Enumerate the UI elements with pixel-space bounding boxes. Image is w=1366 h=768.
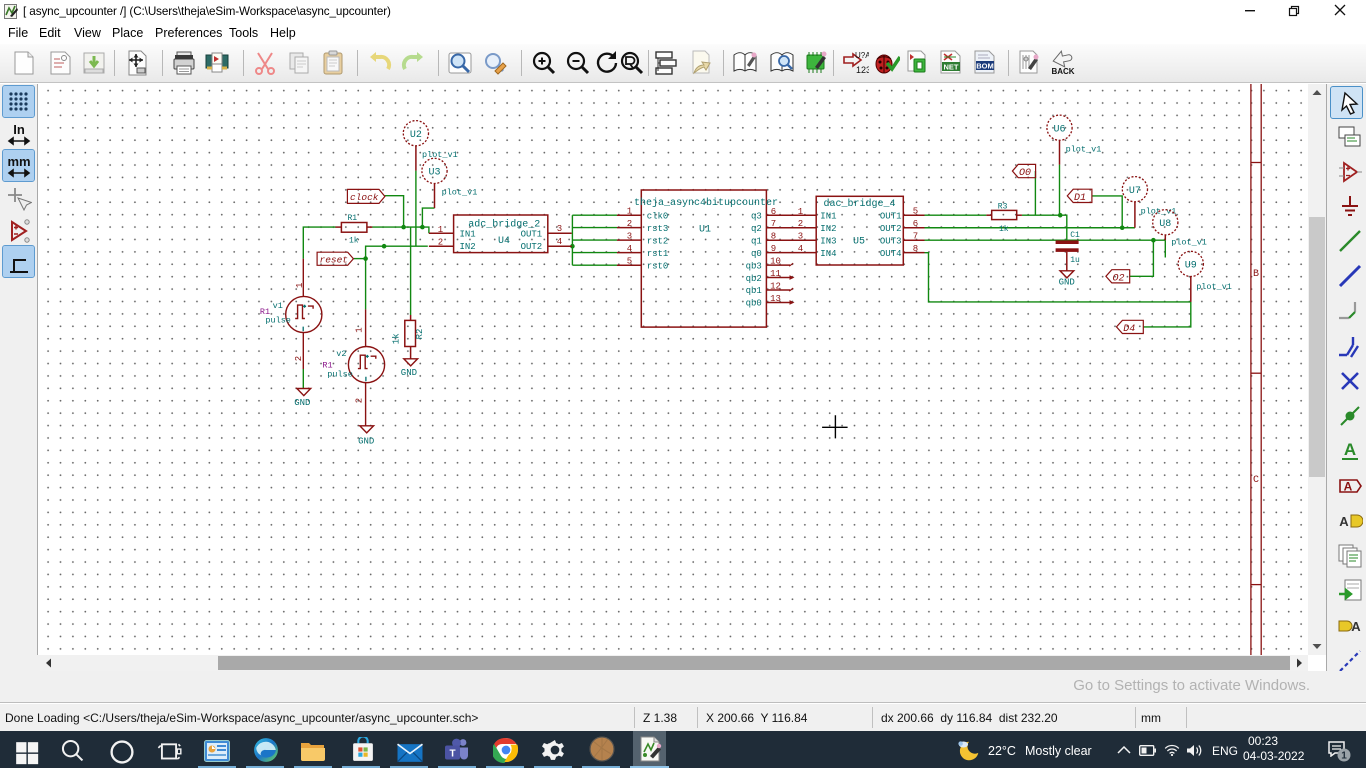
plot flag U3 (422, 158, 447, 183)
ground under R2 (404, 359, 418, 366)
svg-text:3: 3 (627, 232, 632, 242)
svg-text:5: 5 (913, 207, 918, 217)
svg-text:IN1: IN1 (460, 229, 476, 239)
svg-text:plot_v1: plot_v1 (422, 150, 458, 160)
svg-text:pulse: pulse (327, 369, 353, 379)
svg-text:NET: NET (944, 63, 959, 72)
IC U5 dac_bridge_4 box (816, 196, 903, 265)
svg-text:OUT3: OUT3 (880, 236, 902, 246)
svg-text:7: 7 (771, 219, 776, 229)
svg-text:A: A (1344, 440, 1356, 459)
svg-text:B: B (1253, 269, 1259, 280)
svg-text:IN2: IN2 (460, 242, 476, 252)
svg-text:1k: 1k (999, 225, 1009, 234)
plot flag U7 (1122, 177, 1147, 202)
junction J5 R3 node (1058, 213, 1063, 218)
svg-text:U5: U5 (853, 236, 865, 247)
junction J6 pin6 node (1120, 225, 1125, 230)
wire C1 to GND (1066, 252, 1068, 271)
svg-text:A: A (1339, 514, 1349, 529)
wire dac pin7 row (925, 239, 1166, 241)
svg-text:q3: q3 (751, 212, 762, 222)
svg-text:OUT1: OUT1 (880, 211, 902, 221)
global label O0 (1012, 164, 1035, 177)
wire dac pin6 row (925, 227, 1135, 229)
wire ladder row 5 (572, 264, 617, 266)
resistor R3 (986, 210, 1022, 219)
svg-text:1k: 1k (392, 333, 402, 344)
wire ladder vertical (571, 215, 573, 265)
svg-text:GND: GND (401, 368, 417, 378)
svg-text:6: 6 (771, 207, 776, 217)
svg-text:6: 6 (913, 219, 918, 229)
capacitor C1 (1056, 240, 1079, 252)
wire ladder row 1 (572, 214, 617, 216)
U1 qb3 pin 10 (766, 264, 790, 266)
svg-text:8: 8 (771, 232, 776, 242)
svg-text:OUT4: OUT4 (880, 249, 902, 259)
ground under v1 (297, 389, 311, 396)
voltage source v2 (348, 309, 384, 425)
svg-text:4: 4 (627, 244, 632, 254)
wire main row left segment (303, 227, 335, 259)
svg-text:7: 7 (913, 232, 918, 242)
junction J7 pin7 node (1151, 238, 1156, 243)
svg-text:1: 1 (798, 207, 803, 217)
svg-text:2: 2 (627, 219, 632, 229)
U1 qb0 pin 13 (766, 301, 790, 303)
svg-text:11: 11 (770, 269, 781, 279)
svg-text:U2: U2 (410, 130, 422, 141)
junction J1 (401, 225, 406, 230)
global label clock (347, 189, 385, 203)
svg-text:U3: U3 (428, 168, 440, 179)
svg-text:clk0: clk0 (647, 211, 669, 221)
svg-text:U4: U4 (498, 236, 510, 247)
svg-text:4: 4 (557, 237, 562, 247)
wire reset to v2 (365, 259, 367, 310)
wire R3 to C1 node (1022, 215, 1067, 240)
U5 right pins 5-8 (903, 215, 924, 252)
wire U2 plot drop (415, 171, 417, 247)
background window edge strips at very top (563, 0, 611, 2)
U1 qb2 pin 11 (766, 277, 790, 279)
svg-text:2: 2 (354, 398, 364, 403)
pin 2 U4 (429, 245, 454, 247)
ground under v2 (360, 426, 374, 433)
plot flag U2 (403, 121, 428, 146)
svg-text:1: 1 (295, 283, 305, 288)
svg-text:plot_v1: plot_v1 (1066, 145, 1102, 155)
svg-text:OUT1: OUT1 (521, 229, 543, 239)
wire reset riser and IN2 row (366, 246, 428, 258)
svg-text:R3: R3 (998, 202, 1008, 211)
junction J2 (420, 225, 425, 230)
plot flag U9 (1178, 251, 1203, 276)
svg-text:q2: q2 (751, 224, 762, 234)
svg-text:IN2: IN2 (820, 224, 836, 234)
svg-text:5: 5 (627, 257, 632, 267)
svg-text:3: 3 (557, 224, 562, 234)
svg-text:GND: GND (358, 437, 374, 447)
wire ladder row 4 (572, 252, 617, 254)
svg-text:BOM: BOM (976, 62, 994, 71)
svg-text:U?A: U?A (855, 51, 869, 60)
svg-text:plot_v1: plot_v1 (442, 188, 478, 198)
svg-text:1: 1 (438, 225, 443, 235)
svg-text:theja_async4bitupcounter: theja_async4bitupcounter (634, 197, 778, 209)
svg-text:rst0: rst0 (647, 261, 669, 271)
wire v1 gnd segment (302, 369, 304, 388)
svg-text:2: 2 (798, 219, 803, 229)
svg-text:plot_v1: plot_v1 (1171, 238, 1207, 248)
wire U6 plot drop (1059, 165, 1061, 216)
pin 4 U4 (548, 245, 572, 247)
svg-text:C: C (1253, 475, 1259, 486)
svg-text:U6: U6 (1053, 124, 1065, 135)
sheet border right edge (1251, 84, 1261, 655)
wire O2 label route (1130, 240, 1154, 276)
junction J4 on IN2 row (382, 244, 387, 249)
svg-text:12: 12 (770, 282, 781, 292)
svg-text:qb2: qb2 (746, 274, 762, 284)
wire O0 drop (1034, 171, 1036, 215)
wire U8 lower stub (1164, 240, 1166, 257)
wire U3 plot route (422, 208, 434, 227)
svg-text:v1: v1 (273, 301, 283, 311)
plot flag U6 (1047, 115, 1072, 140)
svg-text:U1: U1 (699, 224, 711, 235)
svg-text:In: In (13, 122, 25, 137)
svg-text:IN4: IN4 (820, 249, 836, 259)
svg-text:IN3: IN3 (820, 236, 836, 246)
svg-text:D1: D1 (1074, 193, 1086, 204)
svg-text:q1: q1 (751, 236, 762, 246)
wire D4 label route (1143, 302, 1191, 327)
wire clock-to-junction (385, 196, 404, 227)
svg-text:3: 3 (798, 232, 803, 242)
svg-text:123: 123 (856, 65, 869, 75)
wire dac pin5 to R3 (925, 214, 987, 216)
svg-text:pulse: pulse (265, 316, 291, 326)
svg-text:1u: 1u (1070, 256, 1080, 265)
svg-text:rst1: rst1 (647, 249, 669, 259)
voltage source v1 (286, 259, 322, 369)
svg-text:2: 2 (438, 238, 443, 248)
svg-text:mm: mm (7, 154, 30, 169)
svg-text:O0: O0 (1019, 168, 1031, 179)
ground under C1 (1060, 271, 1074, 278)
U1 left pins 1-5 (617, 215, 641, 265)
svg-text:clock: clock (350, 192, 379, 203)
global label D4 (1117, 320, 1144, 333)
svg-text:O2: O2 (1113, 273, 1125, 284)
resistor R1 (335, 223, 372, 233)
svg-text:C1: C1 (1070, 231, 1080, 240)
pin 3 U4 (548, 232, 572, 234)
svg-text:q0: q0 (751, 249, 762, 259)
junction J3 reset (363, 256, 368, 261)
wire D1 label route (1092, 196, 1122, 228)
svg-text:BACK: BACK (1051, 67, 1074, 76)
svg-text:R2: R2 (415, 329, 425, 340)
svg-text:GND: GND (294, 398, 310, 408)
svg-text:13: 13 (770, 294, 781, 304)
svg-text:D4: D4 (1123, 324, 1135, 335)
global label O2 (1106, 270, 1130, 283)
IC U1 theja_async4bitupcounter box (641, 190, 766, 327)
svg-text:reset: reset (320, 254, 349, 265)
svg-text:v2: v2 (336, 349, 346, 359)
svg-text:4: 4 (798, 244, 803, 254)
wire reset stub (354, 258, 366, 260)
svg-text:IN1: IN1 (820, 211, 836, 221)
svg-text:plot_v1: plot_v1 (1196, 282, 1232, 292)
wire main row right of R1 (372, 227, 429, 233)
svg-text:A: A (1344, 480, 1353, 494)
svg-text:OUT2: OUT2 (521, 242, 543, 252)
svg-text:T: T (449, 749, 455, 760)
svg-text:rst2: rst2 (647, 236, 669, 246)
svg-text:A: A (1351, 619, 1361, 634)
svg-text:U8: U8 (1159, 219, 1171, 230)
svg-text:10: 10 (770, 257, 781, 267)
mouse crosshair (822, 415, 848, 438)
svg-text:1: 1 (354, 327, 364, 332)
svg-text:1: 1 (627, 207, 632, 217)
svg-text:2: 2 (294, 356, 304, 361)
U1 right pins 6-9 joined to U5 pins 1-4 (766, 215, 816, 252)
svg-text:1: 1 (1341, 751, 1347, 762)
svg-text:GND: GND (1059, 278, 1075, 288)
wire ladder row 2 (572, 227, 617, 229)
junction ladder pin4 (570, 244, 575, 249)
svg-text:OUT2: OUT2 (880, 224, 902, 234)
global label reset (317, 252, 353, 265)
svg-text:R1: R1 (348, 214, 358, 223)
svg-text:qb1: qb1 (746, 286, 762, 296)
svg-text:U9: U9 (1185, 261, 1197, 272)
wire dac pin8 route (925, 253, 1191, 302)
svg-text:qb0: qb0 (746, 299, 762, 309)
pin 1 U4 (429, 232, 454, 234)
svg-text:dac_bridge_4: dac_bridge_4 (824, 198, 896, 210)
svg-text:8: 8 (913, 244, 918, 254)
global label D1 (1067, 189, 1092, 202)
wire R2 riser (410, 227, 412, 315)
svg-text:1k: 1k (349, 237, 359, 246)
svg-text:qb3: qb3 (746, 261, 762, 271)
op-amp U4 adc_bridge_2 box (454, 215, 548, 253)
plot flag U8 (1153, 210, 1178, 235)
resistor R2 (405, 315, 416, 359)
svg-text:U7: U7 (1129, 186, 1141, 197)
svg-text:9: 9 (771, 244, 776, 254)
U1 qb1 pin 12 (766, 289, 790, 291)
svg-text:rst3: rst3 (647, 224, 669, 234)
wire ladder row 3 (572, 239, 617, 241)
